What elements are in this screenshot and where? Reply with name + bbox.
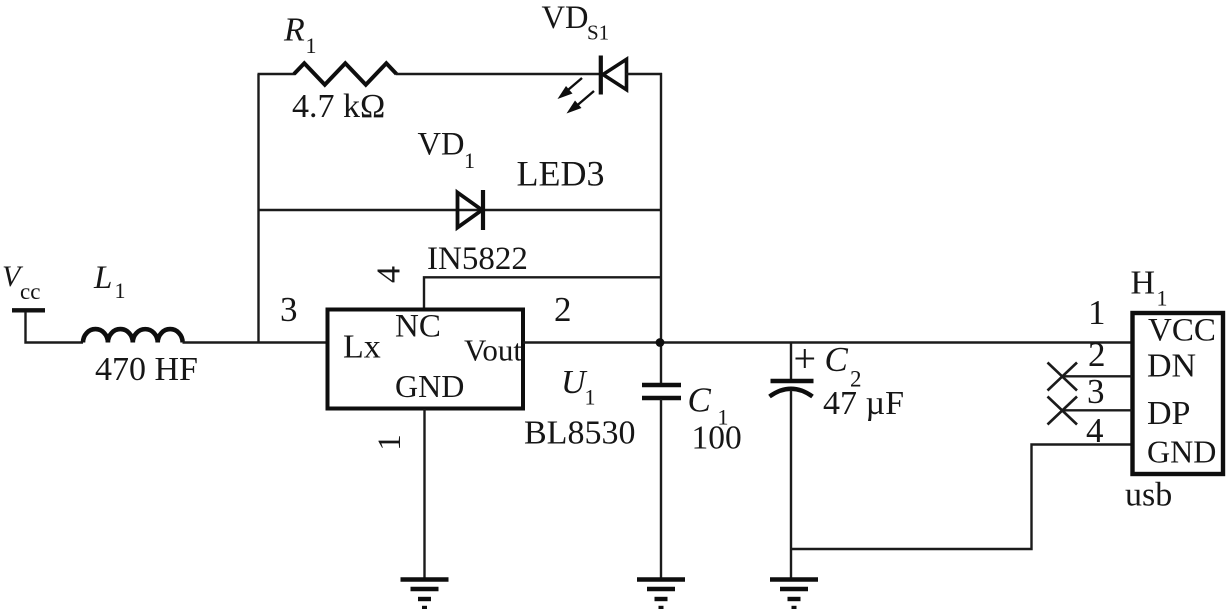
wire NC pin 4 branch bbox=[424, 277, 661, 309]
svg-text:1: 1 bbox=[1157, 286, 1168, 311]
svg-text:1: 1 bbox=[306, 33, 317, 58]
LED arrow 2 bbox=[567, 91, 595, 114]
diode VD1 triangle bbox=[458, 193, 483, 228]
svg-text:R: R bbox=[283, 12, 305, 49]
svg-text:4: 4 bbox=[371, 266, 408, 283]
diode VD1 cathode bar bbox=[481, 190, 485, 230]
wire VD1 branch bbox=[259, 209, 662, 211]
svg-text:1: 1 bbox=[1088, 293, 1106, 332]
capacitor C2 curved plate bbox=[770, 389, 813, 397]
svg-text:DN: DN bbox=[1147, 348, 1196, 385]
no-connect X on pin 2 bbox=[1048, 363, 1078, 391]
svg-text:NC: NC bbox=[395, 309, 441, 345]
svg-text:cc: cc bbox=[20, 279, 40, 304]
svg-text:1: 1 bbox=[115, 278, 126, 303]
svg-text:L: L bbox=[93, 260, 112, 296]
Vcc terminal bar bbox=[12, 308, 45, 312]
capacitor C2 top plate bbox=[771, 379, 814, 384]
svg-text:+: + bbox=[794, 336, 817, 381]
svg-text:usb: usb bbox=[1125, 477, 1172, 514]
svg-text:VCC: VCC bbox=[1148, 313, 1216, 349]
wire LED to right rail corner bbox=[626, 73, 662, 75]
svg-text:4: 4 bbox=[1086, 411, 1104, 450]
no-connect X on pin 3 bbox=[1048, 397, 1078, 425]
ground under IC bbox=[401, 580, 449, 609]
svg-text:47 µF: 47 µF bbox=[823, 385, 904, 422]
usb connector H1 box bbox=[1133, 313, 1224, 474]
wire usb pin 3 stub bbox=[1062, 409, 1132, 411]
inductor L1 bbox=[83, 329, 183, 342]
svg-text:2: 2 bbox=[1088, 335, 1106, 374]
svg-text:IN5822: IN5822 bbox=[427, 241, 528, 277]
wire ground return C2 to usb pin 4 bbox=[791, 445, 1132, 550]
wire inductor to IC pin Lx bbox=[183, 341, 328, 343]
wire Vout pin 2 to usb pin 1 bbox=[523, 341, 1132, 343]
wire Vcc down bbox=[26, 312, 84, 343]
svg-text:3: 3 bbox=[1087, 372, 1105, 411]
svg-text:GND: GND bbox=[395, 368, 464, 404]
node junction dot bbox=[656, 338, 665, 347]
svg-text:VD: VD bbox=[542, 0, 589, 36]
wire top to resistor bbox=[258, 73, 296, 75]
ground under C2 bbox=[770, 580, 818, 609]
svg-text:1: 1 bbox=[464, 148, 475, 173]
svg-text:Lx: Lx bbox=[343, 329, 381, 366]
svg-text:2: 2 bbox=[554, 290, 572, 329]
wire left rail bbox=[257, 74, 259, 343]
svg-text:LED3: LED3 bbox=[517, 154, 605, 194]
svg-text:Vout: Vout bbox=[464, 333, 522, 368]
svg-text:C: C bbox=[688, 381, 712, 420]
svg-text:BL8530: BL8530 bbox=[524, 415, 635, 452]
LED VDS1 cathode bar bbox=[599, 56, 603, 95]
svg-text:C: C bbox=[825, 340, 849, 379]
svg-text:GND: GND bbox=[1147, 434, 1216, 470]
wire usb pin 2 stub bbox=[1062, 375, 1132, 377]
svg-text:100: 100 bbox=[692, 420, 742, 457]
wire GND pin 1 down bbox=[423, 409, 425, 578]
svg-text:4.7 kΩ: 4.7 kΩ bbox=[292, 88, 385, 125]
capacitor C2 top wire bbox=[790, 343, 792, 383]
svg-text:VD: VD bbox=[418, 127, 465, 163]
capacitor C1 plates bbox=[642, 383, 681, 387]
svg-text:S1: S1 bbox=[587, 21, 609, 45]
svg-text:470 HF: 470 HF bbox=[95, 351, 198, 388]
svg-text:H: H bbox=[1131, 265, 1156, 302]
wire C2 to ground bbox=[790, 390, 792, 578]
LED VDS1 triangle bbox=[603, 59, 627, 89]
svg-text:DP: DP bbox=[1147, 395, 1190, 432]
svg-text:1: 1 bbox=[372, 434, 408, 451]
ground under C1 bbox=[637, 580, 685, 609]
svg-text:1: 1 bbox=[585, 385, 596, 410]
LED arrow 1 bbox=[558, 78, 583, 99]
svg-text:3: 3 bbox=[280, 290, 298, 329]
resistor R1 bbox=[294, 63, 397, 84]
op-amp U1 box (IC BL8530) bbox=[328, 310, 524, 409]
wire C1 to ground bbox=[660, 399, 662, 578]
wire right rail bbox=[660, 73, 662, 384]
wire resistor to LED bbox=[396, 73, 600, 75]
